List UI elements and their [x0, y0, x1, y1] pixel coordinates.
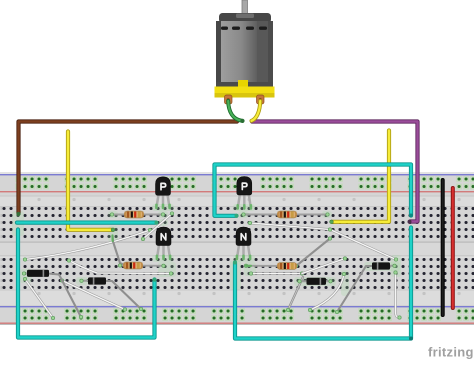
jumper W6 (row H middle horizontal): [251, 272, 302, 274]
transistor Q2 (PNP P): [237, 177, 252, 196]
jumper W7 (row H to row F diagonal): [302, 259, 345, 274]
breadboard: [0, 172, 474, 325]
jumper W1 (row F to row D long white): [25, 230, 150, 260]
wire green (motor left lead): [228, 101, 242, 121]
wire cyan U (left bottom loop): [18, 230, 155, 338]
wire brown (left supply loop): [19, 122, 238, 214]
jumper W13 (white hairpin right): [396, 273, 400, 318]
diode D2 (left lower): [82, 280, 89, 282]
jumper W5 (row H left horizontal): [69, 261, 171, 274]
wire purple (motor to board right): [252, 122, 418, 222]
transistor Q4 (NPN N): [236, 227, 251, 246]
transistor Q3 (NPN N): [156, 227, 171, 246]
diode D1 (bent right leg to rail): [24, 273, 28, 275]
diode D4 (right, bent left leg to rail): [390, 265, 395, 267]
jumper W12 (gray, short to rail): [288, 277, 303, 310]
wire cyan lower-right loop: [235, 228, 411, 339]
transistor Q2 (PNP P) legs: [238, 194, 240, 209]
wire cyan top box: [215, 165, 412, 216]
node glows: [152, 204, 174, 211]
jumper W4 (row D to row F right): [330, 230, 396, 260]
transistor Q3 (NPN N) legs: [157, 244, 159, 259]
wire cyan row C (left long): [17, 221, 156, 225]
resistor R4 (bent left leg): [113, 237, 126, 266]
resistor R2: [244, 213, 250, 215]
jumper W10 (left long to rail): [62, 281, 125, 310]
wire yellow 1 (left): [68, 132, 112, 230]
svg-text:fritzing: fritzing: [428, 345, 474, 360]
transistor Q1 (PNP P) legs: [156, 194, 158, 208]
jumper W9 (left, to bottom rail): [25, 279, 53, 318]
jumper W8 (curved, row H to bottom rail): [310, 274, 344, 310]
resistor R3 (bent right leg): [296, 239, 330, 267]
transistor Q4 (NPN N) legs: [237, 244, 239, 259]
jumper W3 (row C to row D middle): [250, 223, 330, 230]
resistor R1: [112, 214, 163, 216]
jumper W2 (near P1): [143, 214, 172, 240]
wire red (rail jumper right): [451, 188, 455, 308]
wire black (rail jumper right): [441, 180, 445, 315]
wire yellow 2 (right): [332, 131, 389, 222]
transistor Q1 (PNP P): [156, 177, 171, 196]
motor M1: [242, 0, 248, 16]
diode D3 (middle lower): [300, 280, 308, 282]
wire yellow (motor right lead): [252, 101, 261, 121]
